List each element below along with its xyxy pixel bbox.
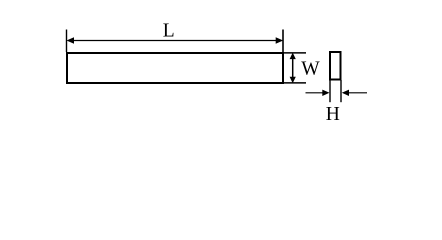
dimension line L [70, 40, 280, 42]
arrowhead H right [342, 90, 349, 96]
extension line bottom (W dimension) [284, 82, 306, 84]
dimension arrow W (double-headed vertical) [292, 57, 294, 79]
arrowhead W bottom [290, 77, 296, 84]
svg-text:H: H [326, 104, 340, 125]
extension line top (W dimension) [284, 52, 306, 54]
extension line right (H dimension) [340, 80, 342, 102]
arrowhead H left [322, 90, 329, 96]
bar end view (rectangle H x W) [330, 52, 341, 80]
H arrow right (pointing left) [349, 92, 367, 94]
arrowhead L left [67, 37, 75, 43]
arrowhead L right [276, 37, 284, 43]
H arrow left (pointing right) [306, 92, 324, 94]
extension line left (L dimension) [66, 30, 68, 53]
svg-text:W: W [301, 59, 320, 80]
extension line right (L dimension) [282, 30, 284, 53]
arrowhead W top [290, 53, 296, 60]
svg-text:L: L [163, 21, 175, 42]
extension line left (H dimension) [329, 80, 331, 102]
bar front view (rectangle L x W) [67, 53, 283, 83]
